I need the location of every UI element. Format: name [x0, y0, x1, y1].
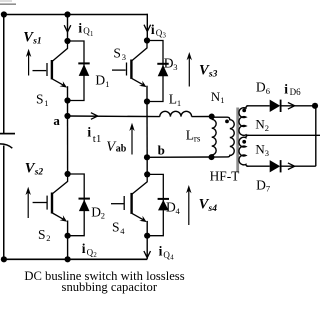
svg-text:i: i [78, 21, 82, 36]
transistor Q3 emitter lead with arrow [132, 78, 143, 84]
transistor Q4 emitter lead with arrow [132, 213, 143, 219]
diode D2 cathode bar [79, 198, 90, 200]
transistor Q1 gate bar [46, 63, 48, 76]
svg-text:ab: ab [116, 144, 127, 155]
wire: bottom DC bus rail [4, 258, 147, 260]
node output junction [312, 103, 318, 109]
diode D6 cathode bar [280, 100, 282, 112]
wire: S2 to bottom rail [67, 236, 69, 260]
diode D4 cathode bar [158, 198, 169, 200]
voltage arrow Vab (up) [131, 126, 133, 155]
transistor Q2 emitter lead with arrow [52, 213, 63, 219]
transistor Q2 (IGBT S2) collector lead [52, 174, 67, 194]
transistor Q1 (IGBT S1) collector lead [52, 41, 67, 61]
transistor Q2 gate bar [46, 196, 48, 210]
current arrow iD6 (right) [288, 103, 295, 110]
svg-text:S: S [36, 92, 44, 107]
svg-text:s1: s1 [32, 37, 41, 47]
node junction dot top-left rail [1, 11, 7, 17]
wire: S2 emitter down [67, 221, 69, 236]
svg-text:s2: s2 [34, 168, 44, 178]
wire: center tap to right edge [247, 134, 320, 136]
diode D2 triangle [79, 200, 90, 212]
transformer core [236, 108, 239, 173]
svg-text:2: 2 [93, 252, 97, 259]
wire: D1 branch loop [68, 41, 85, 101]
stray grey crop line (top-left) [0, 0, 12, 2]
current arrow iQ3 (down) [144, 25, 151, 32]
diode D7 triangle [270, 160, 281, 172]
diode D3 cathode bar [157, 63, 168, 65]
wire: S4 to bottom rail with iQ4 arrow [146, 236, 148, 260]
node S3 emitter [144, 98, 150, 104]
transistor Q3 (IGBT S3) collector lead [132, 41, 147, 61]
transistor Q1 gate lead [33, 70, 47, 72]
wire: D6 to output node with iD6 arrow [281, 105, 315, 107]
inductor Lrs (magnetizing winding, 4 humps) [212, 119, 216, 155]
svg-text:1: 1 [177, 98, 181, 108]
transistor Q2 channel bar [51, 193, 53, 214]
winding N3 (secondary lower, 3 humps) [239, 135, 248, 166]
current arrow iQ1 (down) [64, 25, 71, 32]
svg-text:L: L [186, 127, 194, 142]
diode D6 triangle [270, 100, 281, 112]
transistor Q4 (IGBT S4) collector lead [132, 174, 147, 194]
wire: S3 emitter down [146, 86, 148, 102]
wire: node b to primary bottom node [147, 156, 212, 158]
diode D7 cathode bar [280, 160, 282, 172]
current arrow iD7 (right) [288, 163, 295, 170]
transistor Q4 gate bar [123, 196, 125, 210]
transistor Q1 emitter lead with arrow [52, 79, 63, 85]
wire: node a to inductor L1 [68, 115, 160, 118]
node S1 emitter [64, 97, 70, 103]
transistor Q3 channel bar [130, 60, 132, 79]
svg-text:rs: rs [194, 134, 201, 144]
svg-text:2: 2 [101, 211, 105, 221]
svg-text:D: D [164, 55, 174, 70]
svg-text:i: i [87, 125, 91, 140]
diode D3 triangle [158, 65, 169, 77]
wire: output right vertical [315, 106, 317, 166]
svg-text:D: D [91, 205, 101, 220]
svg-text:s4: s4 [208, 204, 218, 214]
svg-text:7: 7 [266, 184, 270, 194]
wire: S1 emitter down [67, 86, 69, 100]
svg-text:S: S [38, 227, 46, 242]
transistor Q1 channel bar [51, 60, 53, 79]
capacitor C (DC bus, left edge, curved bottom plate) [0, 144, 12, 148]
svg-text:i: i [82, 241, 86, 256]
capacitor C (DC bus, left edge, top plate) [0, 133, 15, 135]
svg-text:D: D [256, 177, 266, 192]
svg-text:4: 4 [170, 255, 174, 262]
node junction dot top rail / leg1 [64, 11, 70, 17]
polarity dot N2 [242, 109, 246, 113]
svg-text:i: i [159, 244, 163, 259]
svg-text:D6: D6 [290, 87, 301, 97]
diode D1 triangle [79, 64, 90, 76]
winding N2 (secondary upper, 3 humps) [239, 106, 248, 136]
svg-text:S: S [112, 220, 120, 235]
svg-text:3: 3 [173, 62, 177, 72]
wire: D2 branch loop [68, 174, 85, 236]
svg-text:3: 3 [122, 52, 126, 62]
transistor Q4 channel bar [130, 193, 132, 214]
wire: left DC bus rail (lower part) [3, 146, 5, 260]
wire: L1 to primary top node [192, 116, 212, 118]
svg-text:L: L [169, 91, 177, 106]
node b [144, 154, 150, 160]
svg-text:s3: s3 [208, 70, 218, 80]
wire: leg2 mid vertical (b to S4) [146, 102, 148, 175]
wire: D4 branch loop [147, 174, 163, 235]
svg-text:i: i [284, 81, 288, 96]
svg-text:b: b [158, 143, 165, 158]
current arrow iQ4 (down) [144, 251, 151, 258]
transistor Q3 gate lead [112, 69, 126, 71]
diode D1 (anti-parallel, cathode bar) [78, 62, 89, 64]
svg-text:4: 4 [120, 226, 125, 236]
winding N1 (primary, 4 humps) [212, 117, 234, 157]
wire: left DC bus rail (upper part) [3, 15, 5, 134]
svg-text:a: a [53, 113, 60, 128]
wire: D3 branch loop [147, 41, 163, 102]
transistor Q2 gate lead [33, 202, 47, 204]
svg-text:S: S [113, 46, 121, 61]
node a [64, 113, 70, 119]
voltage arrow Vs2 [27, 190, 29, 218]
svg-text:2: 2 [46, 233, 50, 243]
svg-text:1: 1 [44, 98, 48, 108]
svg-text:t1: t1 [93, 133, 102, 145]
wire: N3 bottom to D7 [247, 165, 270, 167]
voltage arrow Vs1 [28, 52, 30, 76]
svg-text:D: D [256, 80, 266, 95]
inductor L1 (series, 3 humps) [160, 111, 192, 116]
voltage arrow Vs3 [188, 56, 190, 87]
voltage arrow Vs4 [188, 189, 190, 226]
node S2 emitter [65, 233, 71, 239]
node primary top [209, 114, 215, 120]
svg-text:snubbing capacitor: snubbing capacitor [62, 280, 158, 294]
node S1 collector [64, 38, 70, 44]
svg-text:D: D [166, 199, 176, 214]
wire: leg1 top segment with iQ1 arrow [67, 15, 69, 42]
wire: top rail corner down to leg2 with iQ3 arrow [146, 14, 148, 41]
wire: leg1 mid vertical (a to S2) [67, 101, 69, 175]
svg-text:1: 1 [220, 95, 224, 105]
svg-text:1: 1 [105, 79, 109, 89]
wire: top DC bus rail [4, 14, 148, 16]
svg-text:HF-T: HF-T [210, 168, 240, 183]
node S2 collector [65, 171, 71, 177]
transistor Q3 gate bar [126, 63, 128, 76]
current arrow it1 (right) [91, 113, 98, 120]
wire: D7 to output vertical with arrow [281, 165, 316, 167]
node junction dot bottom rail / leg [65, 256, 71, 262]
transistor Q4 gate lead [111, 203, 124, 205]
svg-text:1: 1 [90, 31, 93, 38]
polarity dot N3 [242, 140, 246, 144]
node S3 collector [144, 37, 150, 43]
svg-text:D: D [95, 73, 105, 88]
node junction dot bottom-left rail [1, 256, 7, 262]
svg-text:2: 2 [265, 123, 269, 133]
wire: S4 emitter down [146, 221, 148, 236]
node S4 collector [144, 171, 150, 177]
svg-text:3: 3 [265, 148, 269, 158]
wire: N2 top to D6 [247, 105, 270, 107]
node primary bottom [209, 154, 215, 160]
diode D4 triangle [158, 200, 169, 211]
svg-text:i: i [151, 22, 155, 37]
node S4 emitter [144, 233, 150, 239]
polarity dot N1 [225, 120, 229, 124]
svg-text:6: 6 [266, 86, 270, 96]
svg-text:3: 3 [163, 33, 167, 40]
